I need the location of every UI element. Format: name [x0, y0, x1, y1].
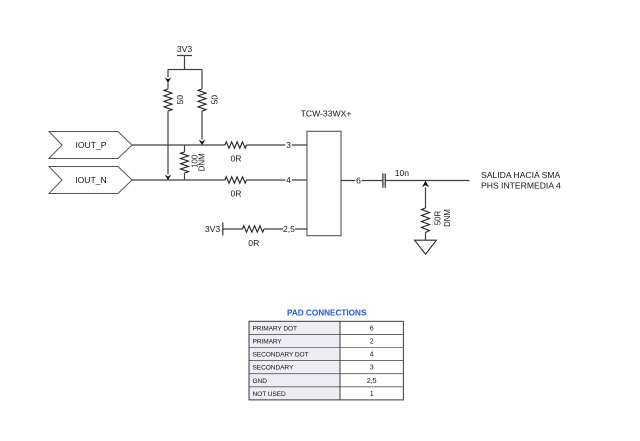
arrowhead onto IOUT_N rail	[165, 175, 171, 181]
power symbol 3V3 (top)	[177, 44, 193, 70]
svg-text:PRIMARY DOT: PRIMARY DOT	[253, 325, 298, 332]
pin 2,5 label	[283, 224, 295, 234]
wire: split from 3V3	[168, 69, 202, 71]
capacitor 10n	[383, 168, 409, 188]
svg-text:IOUT_P: IOUT_P	[75, 140, 106, 150]
svg-text:4: 4	[286, 175, 291, 185]
resistor 50 (right)	[198, 89, 220, 111]
svg-text:SECONDARY DOT: SECONDARY DOT	[253, 352, 309, 359]
power symbol 3V3 (bottom left of pin 2,5)	[205, 223, 223, 236]
wire: arrow to resistor 50 left	[167, 83, 169, 90]
arrowhead onto IOUT_P rail	[199, 140, 205, 146]
resistor 50R DNM	[422, 208, 452, 233]
svg-text:PHS INTERMEDIA 4: PHS INTERMEDIA 4	[481, 181, 561, 191]
svg-text:IOUT_N: IOUT_N	[75, 175, 107, 185]
svg-text:2: 2	[370, 339, 374, 346]
wire: IOUT_N rail to resistor 0R	[132, 179, 225, 181]
wire: right branch down to IOUT_P rail	[201, 111, 203, 140]
wire: 0R to pin 2,5	[264, 228, 307, 230]
wire: arrow to resistor 50R	[425, 187, 427, 208]
svg-text:SECONDARY: SECONDARY	[253, 365, 294, 372]
wire: IOUT_P rail to resistor 0R	[132, 144, 225, 146]
wire: 3V3 to resistor 0R	[223, 228, 243, 230]
svg-text:0R: 0R	[248, 238, 259, 248]
svg-text:4: 4	[370, 352, 374, 359]
wire: left branch from split to R 50	[167, 70, 169, 78]
port connector IOUT_N	[49, 167, 132, 194]
svg-text:TCW-33WX+: TCW-33WX+	[301, 109, 352, 119]
resistor 100 DNM (between rails)	[181, 145, 207, 180]
wire: 0R to pin 3	[247, 144, 308, 146]
svg-text:0R: 0R	[231, 188, 242, 198]
svg-text:50: 50	[210, 95, 220, 105]
wire: 0R to pin 4	[247, 179, 308, 181]
svg-text:3V3: 3V3	[177, 44, 193, 54]
resistor 0R (bottom)	[243, 226, 265, 248]
svg-text:DNM: DNM	[198, 153, 207, 171]
svg-text:1: 1	[370, 391, 374, 398]
svg-text:2,5: 2,5	[367, 378, 377, 385]
svg-text:PAD CONNECTIONS: PAD CONNECTIONS	[287, 309, 367, 318]
pin 6 label	[355, 176, 361, 186]
svg-text:3V3: 3V3	[205, 224, 221, 234]
pin 4 label	[285, 175, 291, 185]
port connector IOUT_P	[49, 132, 132, 159]
resistor 50 (left)	[164, 89, 185, 111]
svg-text:50R: 50R	[434, 210, 443, 225]
svg-text:NOT USED: NOT USED	[253, 391, 286, 398]
table PAD CONNECTIONS	[249, 321, 403, 400]
svg-text:2,5: 2,5	[283, 224, 295, 234]
arrowhead down on left branch	[165, 77, 171, 83]
wire: right branch from split to R 50	[201, 70, 203, 90]
svg-text:SALIDA HACIA SMA: SALIDA HACIA SMA	[481, 170, 561, 180]
wire: resistor to ground	[425, 233, 427, 241]
svg-text:6: 6	[370, 325, 374, 332]
wire: left branch down to IOUT_N rail	[167, 111, 169, 175]
transformer U1 TCW-33WX+	[301, 109, 352, 236]
resistor 0R (top)	[225, 142, 247, 164]
output net label	[481, 170, 561, 191]
arrowhead up from 50R DNM onto output wire	[422, 181, 429, 188]
wire: pin 6 to capacitor	[341, 180, 382, 182]
wire: capacitor to output	[386, 180, 470, 182]
svg-text:3: 3	[370, 365, 374, 372]
svg-text:6: 6	[356, 176, 361, 186]
resistor 0R (middle)	[225, 177, 247, 199]
svg-text:0R: 0R	[231, 153, 242, 163]
svg-text:GND: GND	[253, 378, 268, 385]
ground symbol	[415, 240, 437, 254]
svg-text:3: 3	[286, 140, 291, 150]
svg-text:PRIMARY: PRIMARY	[253, 339, 283, 346]
svg-text:10n: 10n	[395, 168, 410, 178]
svg-text:50: 50	[175, 95, 185, 105]
svg-text:DNM: DNM	[443, 209, 452, 227]
pin 3 label	[285, 140, 291, 150]
